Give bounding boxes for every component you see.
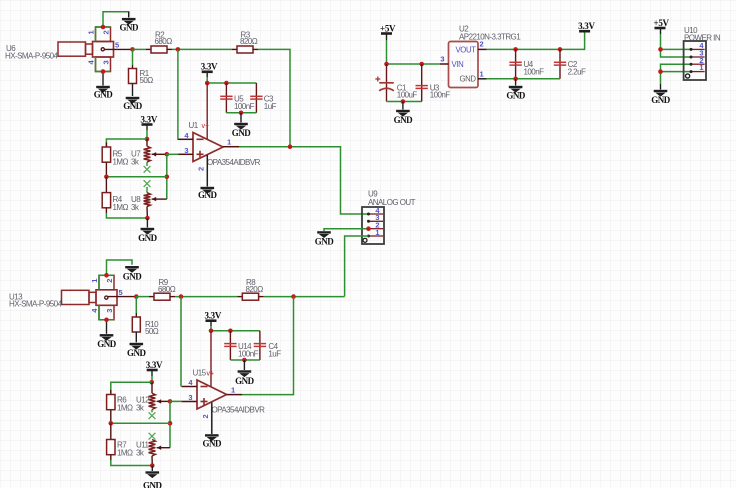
- resistor R7 1MΩ: [107, 423, 115, 460]
- svg-text:2.2uF: 2.2uF: [568, 68, 586, 77]
- svg-text:GND: GND: [203, 439, 223, 449]
- svg-text:VIN: VIN: [452, 60, 464, 69]
- wire 3.3V to cap rail: [211, 326, 260, 331]
- wire wiper rail 2: [169, 401, 171, 447]
- svg-text:5: 5: [115, 41, 119, 50]
- wire wiper to U15 pin3: [170, 400, 182, 402]
- node caps GND tap 2: [242, 358, 247, 363]
- svg-text:100nF: 100nF: [430, 90, 451, 99]
- wire VOUT 3.3V rail: [487, 31, 585, 49]
- svg-text:820Ω: 820Ω: [246, 285, 264, 294]
- node mid rail 2 right: [168, 421, 173, 426]
- supply +5V (power in): [654, 18, 670, 28]
- svg-text:1: 1: [90, 279, 99, 283]
- wire U6 bottom pins to GND: [96, 57, 111, 72]
- svg-text:50Ω: 50Ω: [145, 327, 159, 336]
- node U3 top: [419, 62, 424, 67]
- wire wiper rail: [166, 154, 168, 199]
- svg-text:5: 5: [119, 288, 123, 297]
- wire R7 bottom rail: [111, 460, 153, 466]
- svg-text:HX-SMA-P-9504: HX-SMA-P-9504: [9, 300, 63, 309]
- svg-text:GND: GND: [506, 91, 526, 101]
- resistor R5 1MΩ: [102, 143, 110, 178]
- capacitor C2 plates: [554, 62, 566, 65]
- wire 3.3V to divider2 top: [151, 376, 153, 382]
- svg-text:1: 1: [87, 31, 96, 35]
- svg-text:GND: GND: [651, 95, 671, 105]
- node mid rail right: [165, 175, 170, 180]
- wire R9 junction down to U15 pin4: [180, 297, 182, 387]
- wire pin5 to R2: [133, 48, 147, 50]
- svg-text:1MΩ: 1MΩ: [113, 158, 129, 167]
- ground under R10: [127, 344, 147, 358]
- ground under U1: [198, 188, 218, 200]
- wire GND to U9 pin2: [324, 229, 369, 231]
- wire 3.3V to divider top: [146, 130, 148, 139]
- svg-text:GND: GND: [123, 101, 143, 111]
- IC U2 AP2210N-3.3TRG1: [440, 42, 487, 88]
- resistor R2 680Ω: [151, 46, 172, 53]
- node divider2 top: [149, 380, 154, 385]
- wire mid rail 2: [111, 422, 170, 424]
- svg-text:GND: GND: [119, 23, 139, 33]
- ground divider 1: [138, 229, 158, 243]
- capacitor U4 plates: [509, 62, 521, 65]
- node U13 top: [104, 273, 109, 278]
- node R6/R7 junction: [109, 421, 114, 426]
- svg-text:AP2210N-3.3TRG1: AP2210N-3.3TRG1: [459, 33, 521, 42]
- svg-text:+5V: +5V: [654, 18, 670, 28]
- svg-text:GND: GND: [394, 115, 414, 125]
- node divider1 top: [145, 137, 150, 142]
- svg-text:OPA354AIDBVR: OPA354AIDBVR: [207, 158, 261, 167]
- ground at U9: [315, 232, 335, 246]
- svg-text:2: 2: [201, 415, 210, 419]
- node bottom feedback: [291, 294, 296, 299]
- svg-text:3.3V: 3.3V: [201, 62, 218, 72]
- op-amp U1 power pin v+: [206, 83, 208, 140]
- node feedback/output: [288, 144, 293, 149]
- supply 3.3V (divider 1): [141, 114, 158, 124]
- capacitor C4 1uF: [254, 331, 266, 360]
- wire R2 junction down to U1 pin4: [177, 49, 179, 139]
- wire caps bottom rail: [226, 112, 256, 114]
- wire U9 pin1 to bottom channel: [345, 236, 369, 297]
- ground top of U13: [123, 267, 143, 281]
- svg-text:100uF: 100uF: [397, 90, 418, 99]
- wire +5V to U10 pins 4,3: [661, 34, 692, 49]
- wire +5V to VIN rail: [387, 40, 440, 64]
- capacitor C3 1uF: [250, 96, 262, 99]
- svg-text:GND: GND: [460, 75, 477, 84]
- svg-text:3.3V: 3.3V: [146, 360, 163, 370]
- svg-text:2: 2: [480, 40, 484, 49]
- wire U15 output and feedback: [242, 297, 294, 395]
- wire mid rail: [106, 176, 166, 178]
- wire U6 top pins to GND: [96, 27, 111, 42]
- svg-text:1: 1: [231, 385, 235, 394]
- wire U5 lead: [225, 83, 227, 113]
- node R5/R4 junction: [104, 175, 109, 180]
- wire caps bottom rail 2: [230, 359, 260, 361]
- svg-text:GND: GND: [198, 190, 218, 200]
- wire C3 lead: [255, 83, 257, 113]
- svg-text:1: 1: [227, 138, 231, 147]
- svg-text:VOUT: VOUT: [456, 45, 477, 54]
- wire R9 to R8: [175, 296, 237, 298]
- ground power in: [651, 91, 671, 105]
- svg-text:1MΩ: 1MΩ: [117, 404, 133, 413]
- ground under U14/C4: [235, 372, 255, 387]
- node 3.3V rail: [205, 81, 210, 86]
- node U4 bottom: [513, 77, 518, 82]
- wire U13 bottom pins: [99, 305, 114, 320]
- node U6 top: [101, 25, 106, 30]
- supply 3.3V (U15 decoupling): [205, 311, 222, 321]
- svg-text:1MΩ: 1MΩ: [117, 449, 133, 458]
- connector U6 HX-SMA-P-9504: [58, 27, 133, 72]
- svg-text:3.3V: 3.3V: [578, 21, 595, 31]
- capacitor C4 plates: [254, 344, 266, 347]
- svg-text:HX-SMA-P-9504: HX-SMA-P-9504: [5, 51, 59, 60]
- wire R3 to feedback node: [258, 49, 290, 146]
- ground under U15: [203, 435, 223, 448]
- op-amp U1 OPA354AIDBVR: [178, 133, 240, 162]
- potentiometer U7 3k: [144, 139, 167, 166]
- capacitor U14 100nF: [224, 331, 236, 360]
- capacitor C2 2.2uF: [554, 49, 566, 78]
- svg-text:v+: v+: [202, 123, 210, 130]
- svg-text:680Ω: 680Ω: [155, 37, 173, 46]
- connector U10 POWER IN: [684, 41, 706, 80]
- wire C1/U3 bottom rail: [387, 101, 422, 103]
- svg-text:3: 3: [184, 146, 188, 155]
- svg-text:100nF: 100nF: [524, 68, 545, 77]
- svg-text:GND: GND: [138, 233, 158, 243]
- svg-text:2: 2: [102, 31, 111, 35]
- connector U9 ANALOG OUT: [362, 206, 384, 244]
- node U13 bottom: [104, 318, 109, 323]
- svg-text:1MΩ: 1MΩ: [113, 203, 129, 212]
- svg-text:2: 2: [197, 167, 206, 171]
- ground divider 2: [143, 473, 163, 488]
- node power gnd tap: [401, 99, 406, 104]
- potentiometer U8 3k: [144, 187, 167, 218]
- svg-text:1: 1: [375, 228, 379, 237]
- svg-text:3: 3: [440, 55, 444, 64]
- svg-text:GND: GND: [232, 128, 252, 138]
- svg-text:3: 3: [188, 393, 192, 402]
- no-connect X above U8: [144, 180, 151, 187]
- supply 3.3V (divider 2): [146, 360, 163, 370]
- wire U13 top pins to GND: [99, 275, 114, 290]
- node divider1 bottom: [145, 216, 150, 221]
- svg-text:1uF: 1uF: [264, 102, 277, 111]
- capacitor U3 100nF: [416, 64, 428, 102]
- node U4 top: [513, 47, 518, 52]
- svg-text:GND: GND: [127, 348, 147, 358]
- wire pin5 to R9: [136, 296, 149, 298]
- node U9 pin2: [366, 226, 371, 231]
- ground under U4: [506, 87, 526, 101]
- svg-text:+5V: +5V: [380, 23, 396, 33]
- resistor R3 820Ω: [232, 46, 258, 53]
- node U5 top: [224, 81, 229, 86]
- svg-text:50Ω: 50Ω: [140, 76, 154, 85]
- node R2-right junction: [176, 47, 181, 52]
- wire R8 to output node and U9 pin1 riser: [264, 296, 345, 298]
- svg-text:3.3V: 3.3V: [205, 311, 222, 321]
- capacitor U5 100nF: [220, 96, 232, 99]
- node U14 top: [228, 329, 233, 334]
- svg-text:3: 3: [105, 309, 114, 313]
- wire node A down to R1: [132, 49, 134, 65]
- node caps GND tap: [239, 111, 244, 116]
- svg-text:POWER IN: POWER IN: [684, 34, 721, 43]
- resistor R1 50Ω: [129, 69, 137, 97]
- wire 3.3V to cap rail: [206, 72, 208, 77]
- svg-text:100nF: 100nF: [234, 102, 255, 111]
- resistor R8 820Ω: [237, 293, 263, 300]
- supply 3.3V (U1 decoupling): [201, 62, 218, 72]
- svg-text:U15: U15: [193, 369, 207, 378]
- wire R4 bottom rail: [106, 213, 147, 218]
- op-amp U15 OPA354AIDBVR: [182, 380, 243, 409]
- svg-text:GND: GND: [315, 237, 335, 247]
- node B: U13 pin5 junction: [134, 294, 139, 299]
- capacitor U3 plates: [416, 86, 428, 89]
- supply +5V (regulator input): [380, 23, 396, 33]
- wire node B down to R10: [135, 297, 137, 313]
- svg-text:GND: GND: [235, 376, 255, 386]
- wire U1 output: [239, 147, 369, 214]
- capacitor U14 plates: [224, 344, 236, 347]
- wire top node to R6: [111, 382, 152, 394]
- node C2 top: [558, 47, 563, 52]
- svg-text:1: 1: [699, 63, 703, 72]
- resistor R4 1MΩ: [102, 177, 110, 213]
- svg-text:GND: GND: [143, 481, 163, 488]
- capacitor C1 100uF polarized: [375, 64, 394, 102]
- wire top node to R5: [106, 139, 147, 147]
- op-amp U15 power pin v+: [210, 331, 212, 388]
- resistor R10 50Ω: [132, 317, 140, 342]
- node U6 bottom: [101, 69, 106, 74]
- svg-text:820Ω: 820Ω: [240, 37, 258, 46]
- wire wiper to U1 pin3: [167, 153, 179, 155]
- svg-text:3: 3: [102, 61, 111, 65]
- ground under R1: [123, 98, 143, 111]
- svg-text:GND: GND: [123, 272, 143, 282]
- svg-text:GND: GND: [94, 90, 114, 100]
- ground under C1/U3: [394, 111, 414, 125]
- no-connect X below U12: [149, 412, 156, 419]
- capacitor U4 100nF: [509, 49, 521, 78]
- node divider2 bottom: [150, 463, 155, 468]
- wire regulator GND rail: [487, 78, 560, 80]
- node R9-right junction: [179, 294, 184, 299]
- op-amp U15 pin2 to ground: [211, 403, 213, 435]
- svg-text:680Ω: 680Ω: [158, 285, 176, 294]
- ground bottom of U6: [94, 87, 114, 100]
- svg-text:U1: U1: [189, 121, 199, 130]
- node U12 wiper: [168, 399, 173, 404]
- resistor R9 680Ω: [154, 293, 175, 300]
- wire GND to U10 pins 2,1: [661, 64, 692, 84]
- wire R2 to R3: [172, 48, 232, 50]
- ground top SMA: [119, 19, 139, 32]
- svg-text:v+: v+: [207, 371, 215, 378]
- node A: U6 pin5 junction: [130, 47, 135, 52]
- node GND: [658, 69, 663, 74]
- ground bottom of U13: [97, 335, 117, 349]
- node 3.3V rail 2: [209, 329, 214, 334]
- node +5V: [658, 47, 663, 52]
- svg-text:1uF: 1uF: [268, 350, 281, 359]
- potentiometer U12 3k: [149, 382, 170, 412]
- svg-text:1: 1: [480, 69, 484, 78]
- svg-text:OPA354AIDBVR: OPA354AIDBVR: [212, 405, 266, 414]
- svg-text:GND: GND: [97, 339, 117, 349]
- connector U13 HX-SMA-P-9504: [62, 275, 137, 320]
- no-connect X above U11: [149, 433, 156, 440]
- svg-text:2: 2: [105, 279, 114, 283]
- ground under U5/C3: [232, 124, 252, 138]
- node U7 wiper: [165, 152, 170, 157]
- svg-text:100nF: 100nF: [238, 350, 259, 359]
- op-amp U1 pin2 to ground: [206, 155, 208, 187]
- supply 3.3V output: [578, 21, 595, 31]
- resistor R6 1MΩ: [107, 390, 115, 423]
- no-connect X below U7: [144, 166, 151, 173]
- potentiometer U11 3k: [149, 440, 170, 466]
- node +5V rail: [384, 62, 389, 67]
- svg-text:ANALOG OUT: ANALOG OUT: [368, 198, 416, 207]
- svg-text:3.3V: 3.3V: [141, 114, 158, 124]
